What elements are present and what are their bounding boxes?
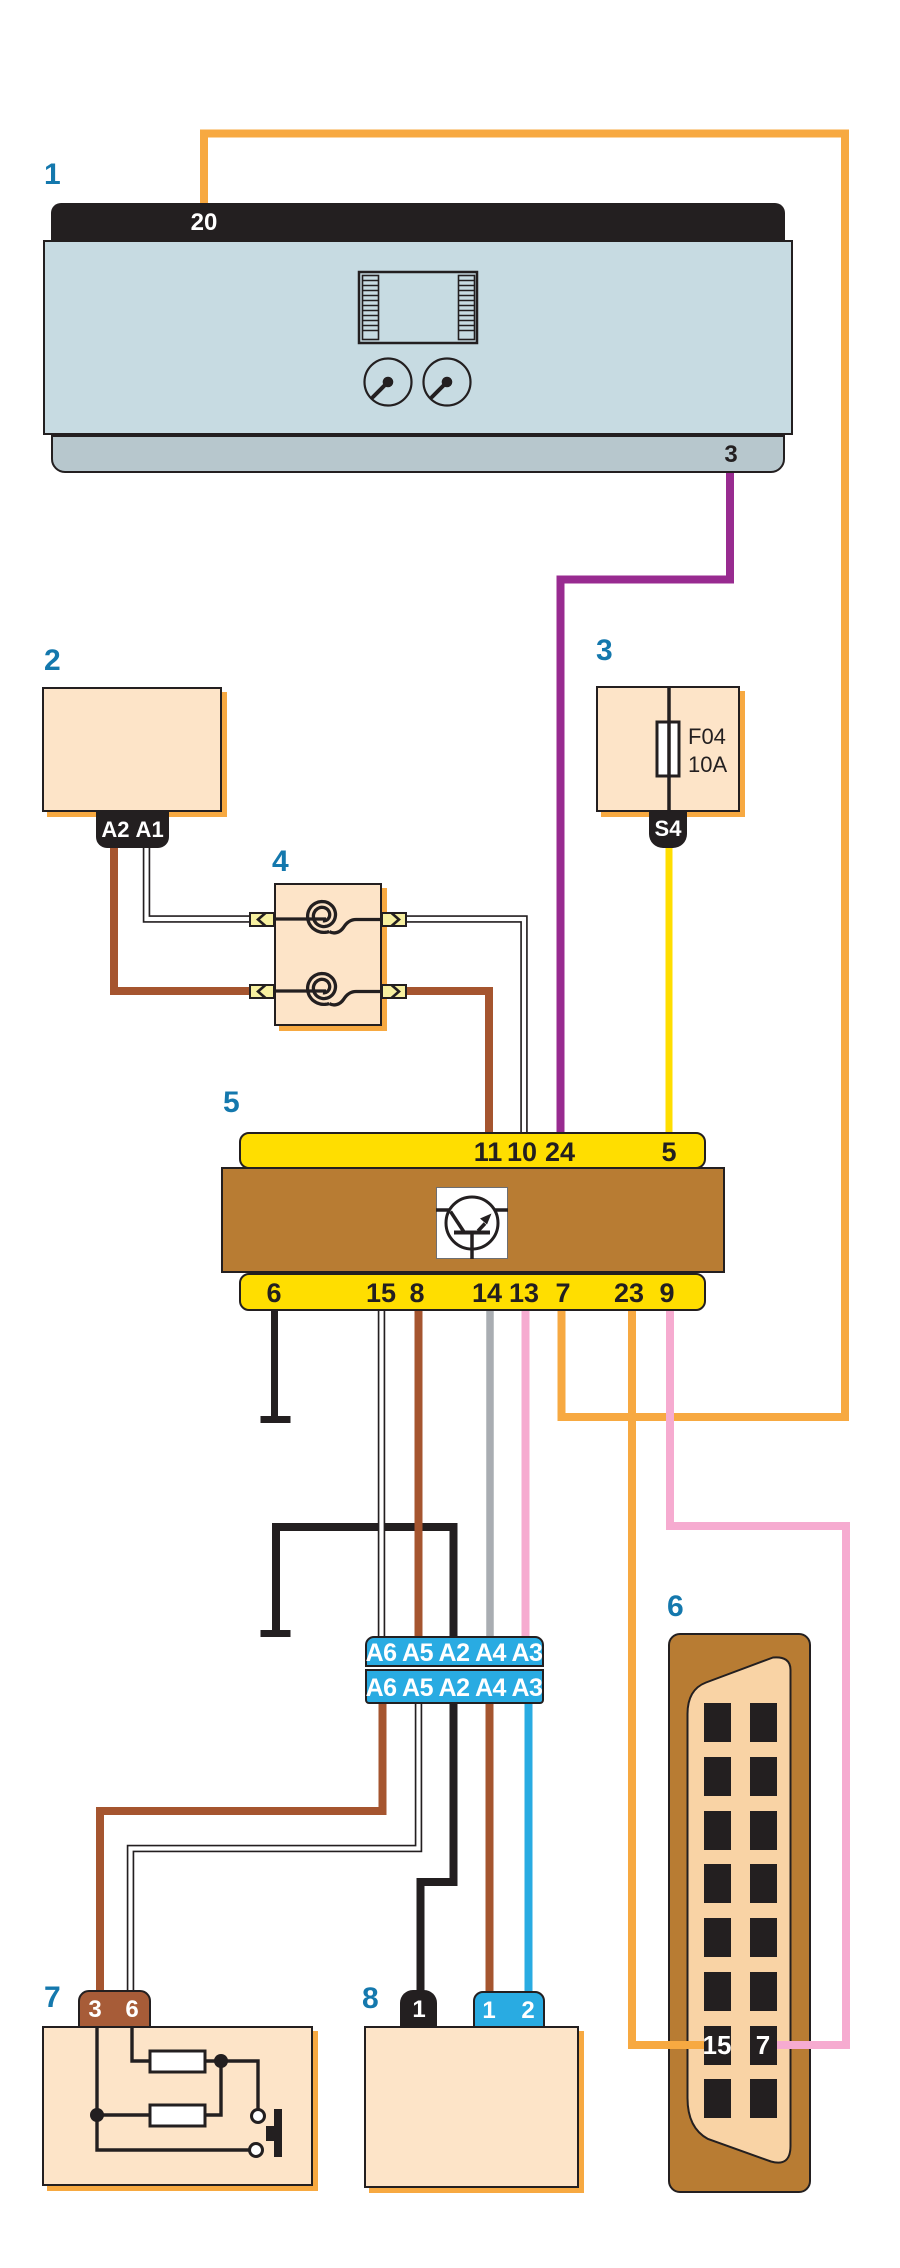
item 5 amplifier brown body [221, 1167, 725, 1273]
item 1 pin 3 label [724, 443, 737, 467]
item 5 top yellow connector bar [239, 1132, 706, 1169]
fuse F04 symbol [596, 686, 740, 812]
item 3 label [596, 636, 613, 666]
item 5 pin 23 label [614, 1280, 644, 1307]
item 4 coil symbols [250, 860, 410, 1040]
item 5 pin 5 label [661, 1139, 676, 1166]
wire brown connector A6 to item7 pin3 [100, 1700, 383, 1995]
item 5 pin 10 label [507, 1139, 537, 1166]
item 2 control unit box [42, 687, 222, 812]
item 1 radio body [43, 240, 793, 435]
wire white connector A5 to item7 pin6 [131, 1700, 419, 1995]
item 7 internal circuit [42, 2026, 313, 2186]
connector block A6 A5 A2 A4 A3 lower row [365, 1669, 544, 1704]
item 6 inner face [668, 1633, 811, 2193]
wire black item5 pin6 to ground [271, 1300, 278, 1419]
item 3 shadow [601, 691, 745, 817]
item 5 pin 11 label [474, 1139, 503, 1166]
item 5 transistor symbol [436, 1187, 508, 1259]
lower coil symbol [276, 989, 326, 992]
connector block A6 A5 A2 A4 A3 upper row [365, 1636, 544, 1667]
item 5 pin 9 label [659, 1280, 674, 1307]
item 5 pin 8 label [409, 1280, 424, 1307]
wire yellow item3 S4 to item5 pin5 [666, 842, 673, 1140]
item 8 blue connector 1 2 [473, 1991, 545, 2028]
item 6 pin row 8 left [704, 2079, 731, 2118]
item 6 pin row 5 left [704, 1918, 731, 1957]
upper coil symbol [276, 917, 326, 920]
item 3 connector S4 [649, 812, 687, 848]
fuse value label F04 10A [688, 724, 726, 750]
item 8 box [364, 2026, 579, 2188]
wire pink item5 pin13 to connector A3 [522, 1300, 530, 1642]
item 4 tab chevrons [249, 912, 409, 1002]
item 6 pin 15 label [703, 2032, 732, 2058]
wire gray item5 pin14 to connector A4 [486, 1300, 494, 1642]
item 8 black connector 1 [400, 1990, 437, 2028]
item 7 shadow [47, 2031, 318, 2191]
item 6 pin row 2 right [750, 1757, 778, 1796]
item 5 bottom yellow connector bar [239, 1273, 706, 1311]
item 1 label [44, 160, 61, 190]
item 6 pin row 7 left [704, 2026, 731, 2065]
wire orange item1 pin20 to item5 pin7 [204, 134, 845, 1418]
item 6 pin 7 label [756, 2032, 770, 2058]
item 4 terminal tab lower-left [249, 984, 275, 999]
wire orange stub into item6 pin15 [628, 2041, 704, 2049]
item 6 pin row 6 right [750, 1972, 778, 2011]
item 7 box [42, 2026, 313, 2186]
wire white item4 upper coil to item5 pin10 [402, 919, 524, 1140]
item 3 fuse box [596, 686, 740, 812]
item 6 pin row 5 right [750, 1918, 778, 1957]
item 5 label [223, 1088, 240, 1118]
ground earth bar left of bracket [261, 1630, 291, 1637]
wire orange item5 pin23 to item6 pin15 [628, 1300, 636, 2049]
item 8 label [362, 1984, 379, 2014]
item 7 connector 3 6 [78, 1990, 151, 2028]
item 6 label [667, 1592, 684, 1622]
item 4 terminal tab upper-left [249, 912, 275, 927]
wire blue connector A3 to item8 blue pin2 [525, 1700, 533, 1998]
wire pink stub into item6 pin7 [777, 2041, 850, 2049]
wire black ground bracket from connector A2 to earth [276, 1527, 454, 1642]
item 5 pin 24 label [545, 1139, 575, 1166]
item 5 pin 6 label [266, 1280, 281, 1307]
item 1 pin 20 label [191, 211, 218, 235]
item 4 shadow [279, 888, 387, 1031]
item 8 shadow [369, 2031, 584, 2193]
item 4 terminal tab upper-right [381, 912, 407, 927]
item 4 terminal tab lower-right [381, 984, 407, 999]
wire purple item1 pin3 to item5 pin24 [561, 468, 731, 1140]
item 4 suppressor box [274, 883, 382, 1026]
item 1 bottom connector strip [51, 435, 785, 473]
item 1 car radio black top bar [51, 203, 785, 240]
item 6 pin row 8 right [750, 2079, 778, 2118]
wire brown item2 A2 to item4 lower coil [114, 845, 256, 991]
item 6 pin row 1 right [750, 1703, 778, 1742]
item 6 pin row 7 right [750, 2026, 778, 2065]
item 6 pin row 4 left [704, 1864, 731, 1903]
item 1 radio display and knobs [350, 260, 560, 410]
wire pink item5 pin9 to item6 pin7 [670, 1300, 846, 2049]
item 5 pin 15 label [366, 1280, 396, 1307]
item 6 pin row 6 left [704, 1972, 731, 2011]
wire brown item5 pin8 to connector A5 [415, 1300, 423, 1642]
wire brown item4 lower coil to item5 pin11 [402, 991, 489, 1140]
ground earth bar below pin6 [261, 1416, 291, 1423]
item 2 label [44, 646, 61, 676]
wire black connector A2 to item8 pin1 [421, 1700, 454, 1995]
wire white item2 A1 to item4 upper coil [147, 845, 257, 919]
item 5 pin 7 label [555, 1280, 570, 1307]
item 5 pin 14 label [472, 1280, 502, 1307]
item 2 connector A2 A1 [96, 812, 169, 848]
item 6 pin row 1 left [704, 1703, 731, 1742]
item 6 pin row 4 right [750, 1864, 778, 1903]
item 6 connector housing [668, 1633, 811, 2193]
wire white item5 pin15 to connector A6 [378, 1300, 386, 1642]
item 5 pin 13 label [509, 1280, 539, 1307]
item 2 shadow [47, 692, 227, 817]
item 6 pin row 3 left [704, 1811, 731, 1850]
wire brown connector A4 to item8 blue pin1 [486, 1700, 494, 1998]
item 6 pin row 2 left [704, 1757, 731, 1796]
item 7 label [44, 1983, 61, 2013]
item 6 pin row 3 right [750, 1811, 778, 1850]
item 4 label [272, 847, 289, 877]
